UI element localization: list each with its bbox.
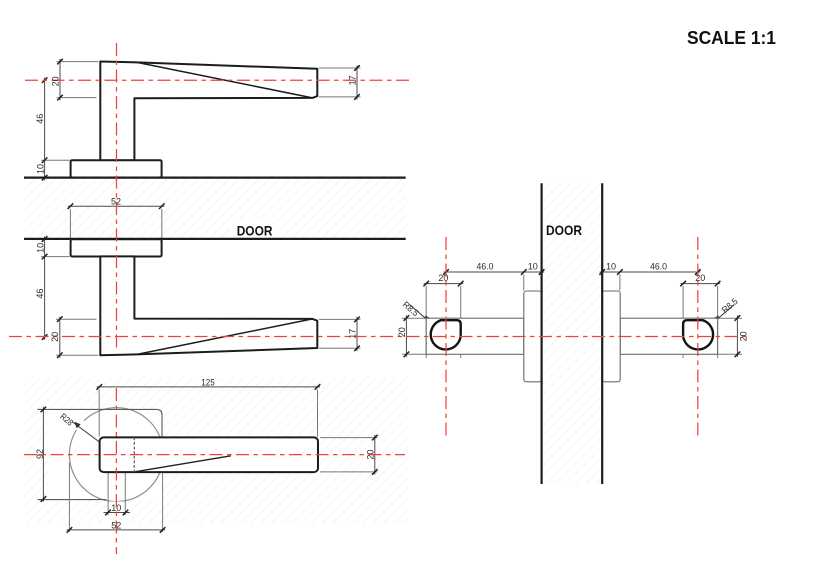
svg-text:SCALE 1:1: SCALE 1:1 [687, 28, 776, 48]
v1 17-dim ext [319, 67, 361, 69]
front view: circle R28 [69, 408, 163, 502]
end view dim 20 left [424, 283, 464, 285]
door hatch strip (end view) [543, 183, 601, 483]
svg-text:20: 20 [695, 273, 705, 283]
v3 dim 52 [67, 529, 165, 531]
R8.5 leader left [410, 305, 446, 336]
svg-text:52: 52 [111, 520, 121, 530]
base plate v1 [71, 160, 162, 177]
end view 10-dim ext left [523, 275, 525, 291]
door lines side views [24, 177, 406, 179]
svg-text:46.0: 46.0 [477, 262, 494, 272]
svg-text:DOOR: DOOR [237, 223, 273, 239]
v3 spindle lines [107, 464, 109, 515]
svg-text:10: 10 [36, 164, 46, 174]
centerline v1+v2 vertical [116, 43, 118, 350]
centerline v1 horizontal [25, 79, 410, 81]
end view dim v20 left [405, 315, 407, 357]
v2 dim 17 [356, 317, 358, 351]
svg-text:92: 92 [35, 449, 45, 459]
v2 17-dim ext [319, 318, 361, 320]
end view dim 46.0+10 left [443, 271, 544, 273]
lever v1 (top side view) [100, 62, 317, 161]
svg-text:DOOR: DOOR [546, 222, 582, 238]
svg-text:17: 17 [348, 75, 358, 85]
common horizontal axis v2 + end view [9, 336, 751, 338]
grip section right (end view) [683, 320, 713, 349]
centerline v3 horizontal [24, 454, 405, 456]
rosette v2 [71, 239, 162, 256]
lever v1 twist crease [137, 62, 313, 98]
lever v3 (front view) [100, 437, 318, 472]
v2 52-dim ext [69, 209, 71, 239]
end view 10-dim ext right [619, 275, 621, 291]
svg-text:20: 20 [365, 450, 375, 460]
door hatch band (side views) [24, 179, 406, 238]
R28 leader [73, 422, 117, 455]
grip section left (end view) [431, 320, 461, 349]
end view 20-dim ext left grip [425, 286, 427, 358]
v3 dim 10 [104, 512, 131, 514]
v1 dim 20 [59, 59, 61, 100]
end view dim 10+46.0 right [600, 271, 701, 273]
v2 dim 10+46 [44, 236, 46, 339]
R8.5 leader right [698, 305, 734, 336]
centerline v3 vertical [115, 388, 117, 554]
v1 20-dim ext [57, 61, 99, 63]
lever v2 twist crease [137, 319, 313, 355]
end view dim 20 right [681, 283, 721, 285]
v2 20-dim ext [56, 318, 97, 320]
v1 dim 17 [356, 65, 358, 99]
v3 dim 92 [42, 407, 44, 502]
svg-text:46: 46 [35, 114, 45, 124]
centerline end view right vertical [697, 237, 699, 438]
hatch zone around front view [25, 378, 408, 523]
v2 dim 20 [59, 317, 61, 358]
v2 dim 52 [68, 205, 165, 207]
svg-text:125: 125 [201, 377, 215, 387]
rosette plate right (end view) [602, 291, 620, 382]
lever bar left (end view) [426, 318, 524, 354]
svg-text:10: 10 [111, 503, 121, 513]
door lines end view [540, 183, 542, 484]
svg-text:46: 46 [35, 289, 45, 299]
v3 twist crease [136, 456, 231, 472]
front view: square rosette bottom edge / 92-dim extension [38, 499, 107, 501]
svg-text:52: 52 [111, 197, 121, 207]
end view v20-dim ext left [402, 317, 426, 319]
svg-text:17: 17 [348, 329, 358, 339]
svg-text:20: 20 [50, 332, 60, 342]
lever v2 (mirrored side view) [100, 256, 317, 355]
v3 hidden neck edge (dashed) [133, 437, 135, 472]
end view 20-dim ext right grip [682, 286, 684, 358]
v2 46-dim ext [41, 256, 70, 258]
masks for dim text on hatch [34, 197, 375, 531]
rosette plate left (end view) [524, 291, 542, 382]
svg-text:20: 20 [397, 327, 407, 337]
svg-text:46.0: 46.0 [650, 262, 667, 272]
v3 52-dim ext [68, 463, 70, 532]
v3 dim 125 [97, 386, 320, 388]
centerline end view left vertical [445, 237, 447, 438]
v3 dim 20 [374, 435, 376, 475]
svg-text:20: 20 [51, 76, 61, 86]
svg-text:20: 20 [438, 273, 448, 283]
front view: square rosette white fill [48, 414, 162, 500]
svg-text:20: 20 [739, 331, 749, 341]
v1 46-dim ext [41, 159, 70, 161]
end view dim v20 right [736, 315, 738, 357]
svg-text:10: 10 [528, 262, 538, 272]
svg-text:10: 10 [36, 243, 46, 253]
end view v20-dim ext right [718, 317, 742, 319]
v1 dim 46+10 [44, 78, 46, 181]
front view: square rosette visible edges [38, 409, 163, 437]
lever bar right (end view) [620, 318, 717, 354]
v3 20-dim ext [320, 437, 377, 439]
v3 125-dim ext [98, 389, 100, 436]
svg-text:10: 10 [606, 262, 616, 272]
